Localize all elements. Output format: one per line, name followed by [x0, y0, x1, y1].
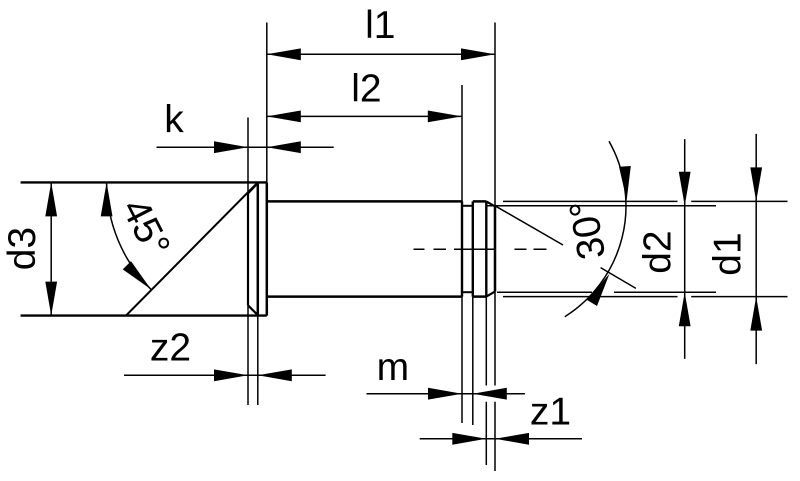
extension line tip face upper [494, 23, 496, 207]
arrow l2 right [428, 111, 462, 123]
extension line groove left lower [461, 297, 463, 423]
tip end face [494, 206, 497, 291]
groove bottom top [462, 205, 473, 207]
groove wall right [472, 201, 474, 296]
extension line groove right lower [472, 297, 474, 425]
tip chamfer bottom [486, 292, 495, 297]
dimension line z1 [420, 438, 582, 440]
svg-text:l1: l1 [365, 4, 395, 47]
arrow l1 right [461, 48, 495, 60]
extension line k z2 left [247, 118, 249, 406]
arrow 30 arc bottom [587, 274, 610, 306]
dimension line d1 [755, 134, 757, 364]
svg-text:z2: z2 [150, 326, 191, 369]
pin head chamfer top [248, 183, 258, 193]
pin head left face edge [247, 193, 249, 305]
svg-text:l2: l2 [351, 68, 381, 111]
centerline dashed [414, 248, 547, 250]
arrow z2 right [258, 369, 292, 381]
45 degree arc [107, 182, 151, 289]
shaft bottom edge left part [267, 295, 462, 298]
arrow d2 bottom [679, 292, 691, 326]
extension line tip face lower [494, 292, 496, 471]
extension line z2 right [257, 316, 259, 405]
extension line d1 bottom [503, 296, 788, 298]
30 degree arc [565, 141, 626, 316]
svg-text:d3: d3 [1, 227, 44, 270]
dimension line k [157, 146, 334, 148]
shaft top edge right part [473, 200, 487, 203]
arrow d1 top [750, 167, 762, 201]
arrow k left [214, 141, 248, 153]
dimension line d3 [50, 182, 52, 315]
dimension line z2 [124, 374, 326, 376]
45 degree construction line [126, 182, 258, 315]
svg-text:m: m [377, 346, 410, 389]
pin head chamfer bottom [248, 305, 258, 315]
arrow z1 left [452, 433, 486, 445]
svg-text:z1: z1 [530, 391, 571, 434]
pin head bottom edge / d3 extension [21, 314, 267, 316]
arrow k right [267, 141, 301, 153]
pin head top edge / d3 extension [21, 181, 267, 183]
svg-text:k: k [164, 98, 184, 141]
arrow l1 left [267, 48, 301, 60]
arrow 30 arc top [619, 166, 631, 200]
extension line d1 top [503, 200, 788, 202]
extension line chamfer circle lower [485, 297, 487, 465]
arrow d1 bottom [750, 297, 762, 331]
arrow 45 arc top [101, 182, 113, 216]
arrow l2 left [267, 111, 301, 123]
extension line d2 bottom [497, 291, 716, 293]
arrow z2 left [214, 369, 248, 381]
arrow d3 top [45, 182, 57, 216]
tip chamfer top [486, 201, 495, 206]
svg-text:d1: d1 [706, 232, 749, 275]
pin head rim edge [257, 182, 260, 315]
arrow d3 bottom [45, 282, 57, 316]
dimension line d2 [684, 139, 686, 359]
tip chamfer circle [485, 201, 487, 296]
arrow z1 right [495, 433, 529, 445]
shaft top edge left part [267, 200, 462, 203]
dimension line l2 [267, 115, 462, 117]
arrow d2 top [679, 172, 691, 206]
extension line head face [266, 23, 268, 183]
svg-text:d2: d2 [636, 230, 679, 273]
arrow m left [428, 388, 462, 400]
dimension line l1 [267, 53, 495, 55]
arrow 45 arc bottom [123, 261, 151, 289]
extension line groove left upper [461, 85, 463, 201]
pin head right face [266, 182, 269, 315]
groove bottom bottom [462, 291, 473, 293]
30 degree construction line [495, 206, 636, 289]
extension line d2 top [487, 205, 716, 207]
arrow m right [473, 388, 507, 400]
groove wall left [461, 201, 463, 296]
dimension line m [367, 393, 525, 395]
shaft bottom edge right part [473, 295, 487, 298]
